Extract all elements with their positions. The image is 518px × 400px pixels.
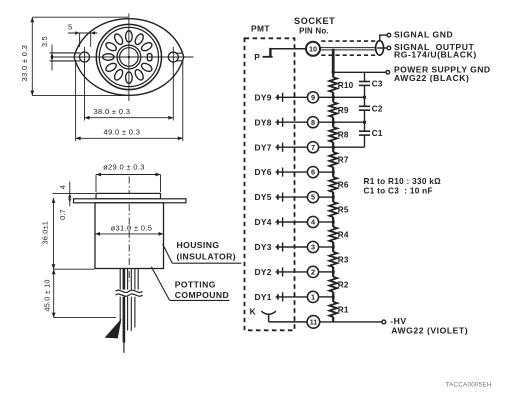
svg-text:DY4: DY4 [255,217,272,227]
svg-text:R3: R3 [338,255,349,264]
wire pin 3 to divider node [319,246,334,248]
resistor R1 [332,297,334,302]
dimension 33.0 ± 0.3 [31,17,33,95]
socket pin 9 [307,92,318,103]
wire DY6 to pin 6 [276,171,308,173]
svg-text:TACCA0005EH: TACCA0005EH [446,382,492,389]
horizontal center line [53,56,194,58]
socket pin 6 [307,167,318,178]
socket cylinder (side) [96,193,161,198]
mounting hole right [168,52,178,62]
svg-text:4: 4 [58,185,67,189]
socket pin 11 [307,316,320,329]
cable bundle above break [119,269,121,290]
coax cable cross-section [376,41,384,55]
svg-text:POTTING: POTTING [175,280,216,290]
dimension 49.0 ± 0.3 [75,60,77,141]
svg-text:PMT: PMT [251,23,270,33]
svg-text:SOCKET: SOCKET [294,16,335,26]
svg-text:DY7: DY7 [255,142,272,152]
socket pin 5 [307,192,318,203]
wire DY4 to pin 4 [276,221,308,223]
svg-text:DY8: DY8 [255,117,272,127]
svg-text:36.0±1: 36.0±1 [41,221,50,244]
svg-text:R7: R7 [338,156,349,165]
capacitor C3 [364,72,366,81]
wire DY5 to pin 5 [276,196,308,198]
svg-text:P: P [254,52,260,62]
socket body inner circle [99,27,158,86]
svg-text:R10: R10 [338,81,354,90]
svg-text:COMPOUND: COMPOUND [175,290,229,300]
socket pin 10 [306,42,320,56]
svg-text:8: 8 [311,118,315,127]
wire pin 11 to -HV [320,321,382,323]
svg-text:DY1: DY1 [255,292,272,302]
socket center hub inner circle [120,48,139,67]
center dot [128,56,131,59]
socket center hub outer circle [117,45,141,69]
wire shield to signal gnd [380,35,387,41]
cable bundle below break [119,297,121,324]
dimension 3.5 (slot) [51,45,53,71]
resistor R7 [332,147,334,152]
capacitor C2 [364,97,366,106]
dimension ø29.0 ± 0.3 [95,175,97,193]
label HOUSING (INSULATOR) [163,244,173,263]
svg-text:C1 to C3 : 10 nF: C1 to C3 : 10 nF [364,187,433,196]
svg-text:33.0 ± 0.3: 33.0 ± 0.3 [20,45,29,82]
cable break symbol [116,290,143,292]
wire pin 1 to divider node [319,296,334,298]
resistor R3 [332,247,334,252]
svg-text:SIGNAL GND: SIGNAL GND [394,30,453,40]
right slot lines to flange tip [176,52,183,54]
svg-text:6: 6 [311,168,315,177]
left slot lines to flange tip [50,52,81,54]
wire power supply ground [333,71,386,73]
capacitor C1 [364,122,366,131]
side view center line [128,177,130,282]
svg-text:PIN No.: PIN No. [299,26,329,35]
resistor R5 [332,197,334,202]
wire DY8 to pin 8 [276,121,308,123]
terminal signal output [387,46,391,50]
cable end pointer (filled arrow) [105,319,122,339]
socket pin 8 [307,117,318,128]
resistor R8 [332,122,334,127]
svg-text:5: 5 [68,23,72,32]
svg-text:R1 to R10 : 330 kΩ: R1 to R10 : 330 kΩ [364,177,442,186]
svg-text:DY2: DY2 [255,267,272,277]
svg-text:3: 3 [311,243,315,252]
svg-text:HOUSING: HOUSING [177,240,220,250]
svg-text:38.0 ± 0.3: 38.0 ± 0.3 [94,107,131,116]
divider bus wire [332,49,335,74]
svg-text:R2: R2 [338,280,349,289]
svg-text:DY3: DY3 [255,242,272,252]
flange plate (side) [74,199,187,203]
wire DY9 to pin 9 [276,96,308,98]
svg-text:1: 1 [311,293,315,302]
resistor R2 [332,272,334,277]
svg-text:AWG22 (BLACK): AWG22 (BLACK) [394,73,469,83]
svg-text:49.0 ± 0.3: 49.0 ± 0.3 [104,128,141,137]
keyway slot [147,54,152,61]
wire core to signal output [377,47,387,49]
svg-text:RG-174/U(BLACK): RG-174/U(BLACK) [394,50,477,60]
svg-text:9: 9 [311,93,315,102]
socket pin 4 [307,216,318,227]
svg-text:7: 7 [311,143,315,152]
resistor R6 [332,172,334,177]
svg-text:3.5: 3.5 [40,36,49,47]
vertical center line [128,14,130,102]
mounting hole left [80,52,90,62]
svg-text:10: 10 [309,44,317,53]
wire pin 7 to divider node [319,146,365,148]
dimension 4 [53,193,96,195]
wire anode to pin 10 [270,48,306,50]
socket pin 7 [307,142,318,153]
wire pin 6 to divider node [319,171,334,173]
socket body outer circle [96,24,161,89]
wire pin 8 to divider node [319,121,365,123]
svg-text:DY9: DY9 [255,92,272,102]
dimension 38.0 ± 0.3 [84,63,86,121]
coax shield (dashed) [321,40,375,42]
socket pin 3 [307,241,318,252]
svg-text:AWG22 (VIOLET): AWG22 (VIOLET) [391,325,468,335]
svg-text:0.7: 0.7 [58,209,67,220]
coax center conductor wire [320,47,379,49]
dimension 5 (hole) [79,33,81,47]
wire pin 4 to divider node [319,221,334,223]
svg-text:2: 2 [311,268,315,277]
dimension 45.0 ± 10 [53,269,55,317]
svg-text:R8: R8 [338,131,349,140]
svg-text:11: 11 [310,320,318,327]
label POTTING COMPOUND [151,267,169,301]
housing box [95,203,164,269]
wire DY2 to pin 2 [276,271,308,273]
wire DY7 to pin 7 [276,146,308,148]
pin contact slots (11) [140,41,153,52]
dimension 36.0 ± 1 [53,198,55,269]
svg-text:C1: C1 [372,129,383,138]
svg-text:45.0 ± 10: 45.0 ± 10 [43,279,52,311]
svg-text:ø31.0 ± 0.5: ø31.0 ± 0.5 [111,224,153,233]
svg-text:DY5: DY5 [255,192,272,202]
resistor R4 [332,222,334,227]
wire DY3 to pin 3 [276,246,308,248]
svg-text:ø29.0 ± 0.3: ø29.0 ± 0.3 [103,162,145,171]
wire pin 9 to divider node [319,96,365,98]
socket top view flange outline [74,19,184,96]
svg-text:C2: C2 [372,104,383,113]
wire pin 2 to divider node [319,271,334,273]
wire pin 5 to divider node [319,196,334,198]
resistor R10 [332,72,334,77]
dimension ø31.0 ± 0.5 [95,233,164,235]
svg-text:R5: R5 [338,206,349,215]
svg-text:R1: R1 [338,305,349,314]
terminal power supply gnd [386,71,390,75]
PMT dashed box [245,38,295,330]
terminal signal gnd [387,33,391,37]
svg-text:R6: R6 [338,181,349,190]
socket pin 1 [307,291,318,302]
wire cathode to pin 11 [268,314,270,322]
svg-text:R9: R9 [338,106,349,115]
svg-text:R4: R4 [338,231,349,240]
svg-text:C3: C3 [372,79,383,88]
svg-text:DY6: DY6 [255,167,272,177]
terminal -HV [382,320,386,324]
svg-text:5: 5 [311,193,315,202]
side view center line inner [128,204,130,266]
wire DY1 to pin 1 [276,296,308,298]
socket pin 2 [307,266,318,277]
svg-text:K: K [250,306,256,316]
resistor R9 [332,97,334,102]
svg-text:(INSULATOR): (INSULATOR) [177,252,236,262]
